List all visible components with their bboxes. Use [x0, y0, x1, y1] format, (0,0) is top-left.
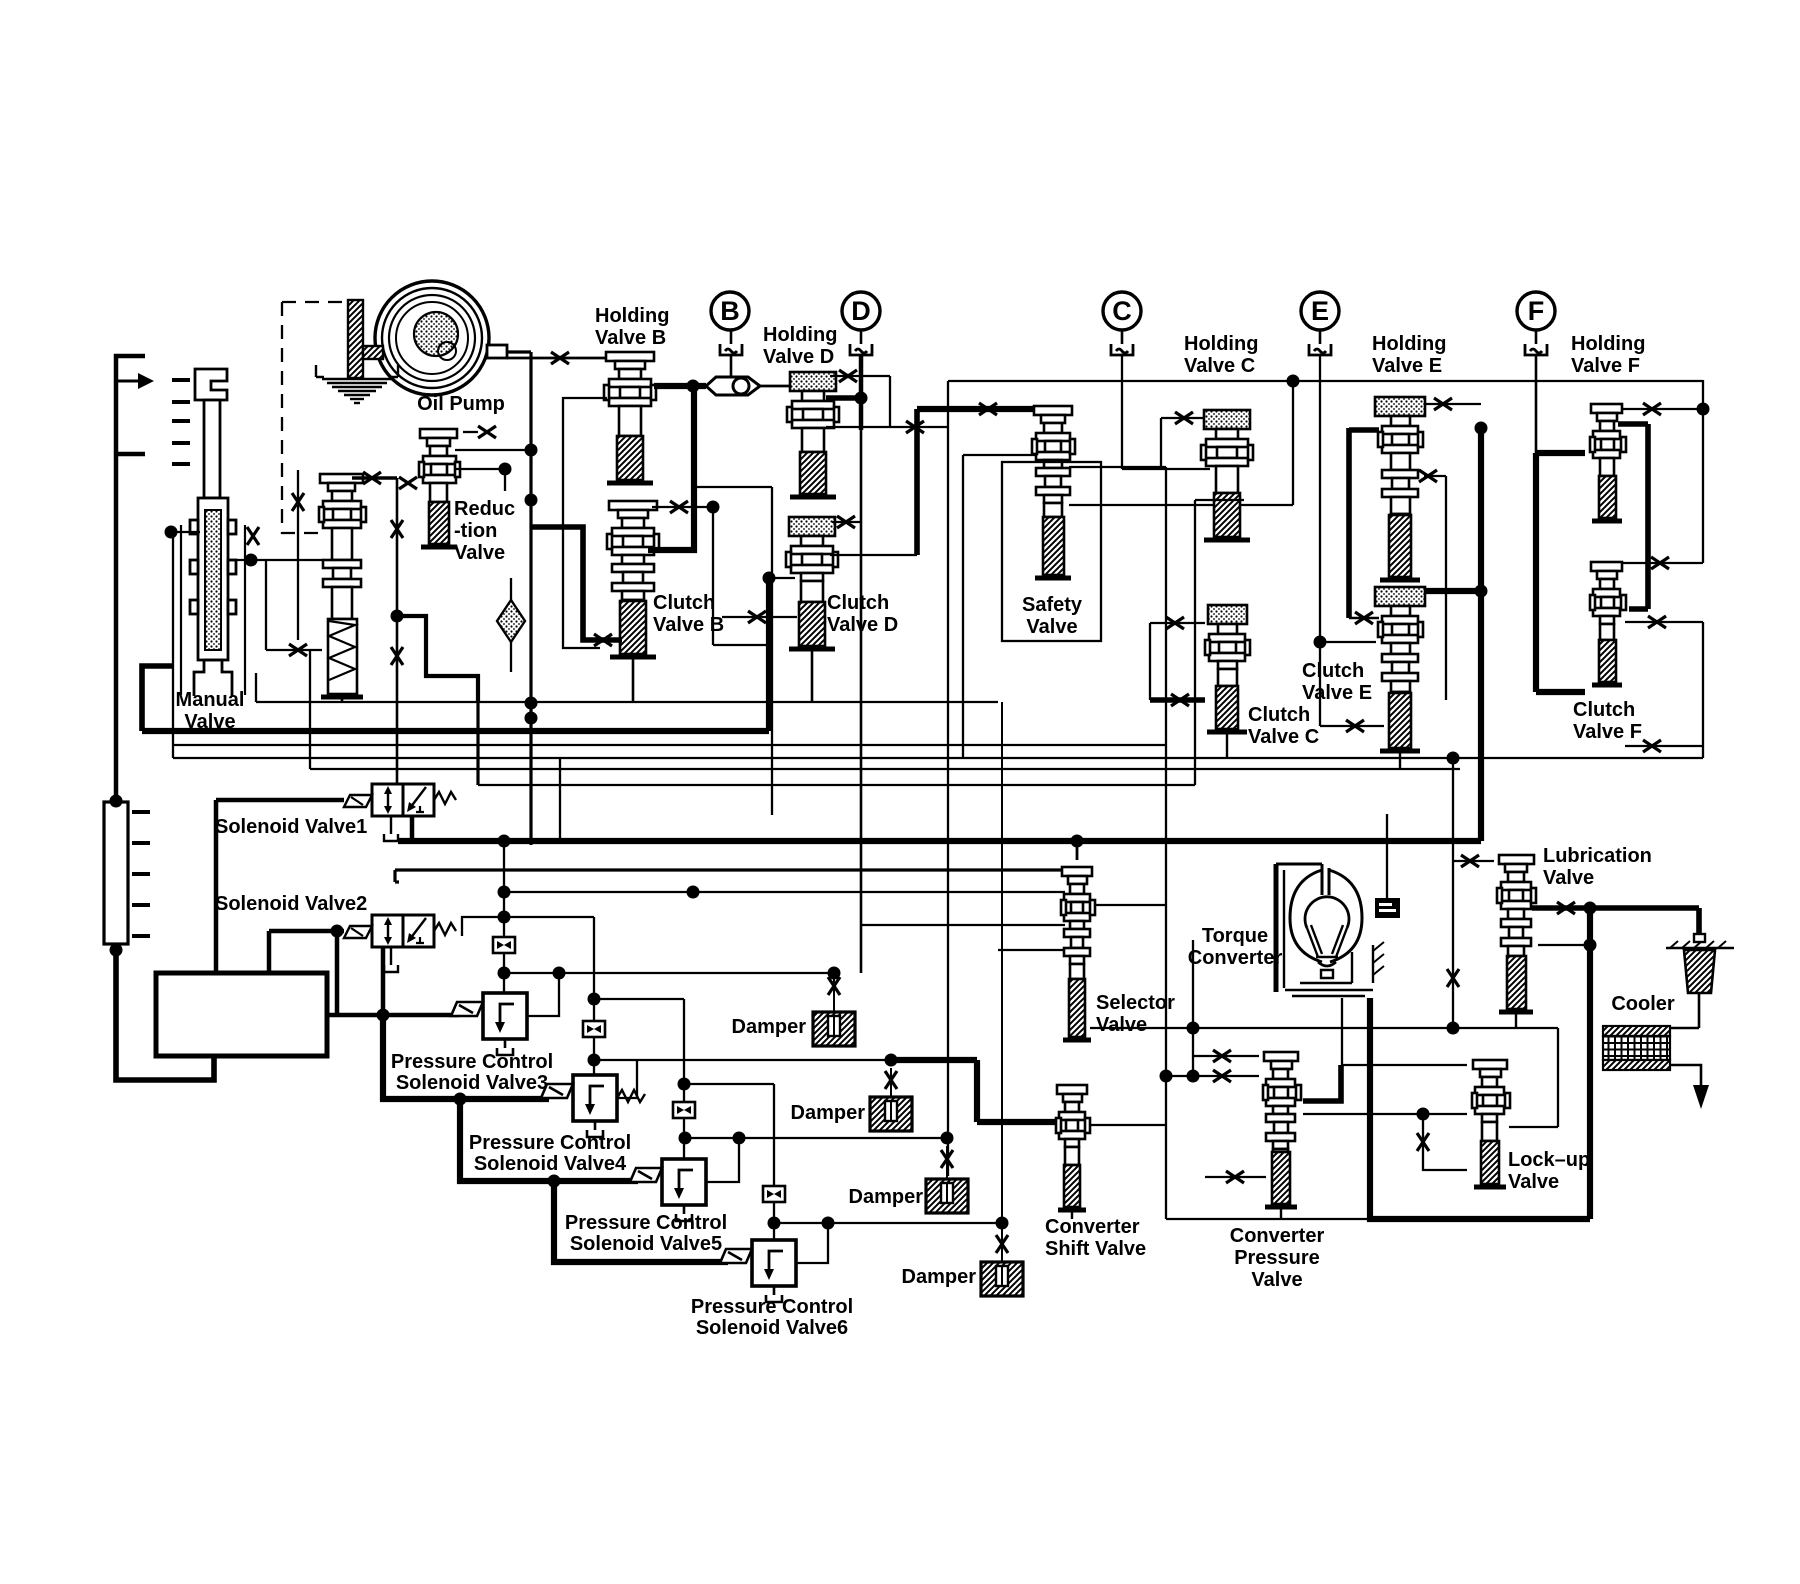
svg-text:Valve: Valve: [454, 542, 505, 564]
wire long riser right: [1165, 467, 1167, 1219]
svg-text:E: E: [1311, 296, 1329, 326]
accumulator ticks: [132, 812, 150, 936]
damper 3: [926, 1179, 968, 1213]
wire: [395, 880, 399, 883]
svg-text:D: D: [851, 296, 871, 326]
svg-text:-tion: -tion: [454, 520, 497, 542]
orifice: [1643, 740, 1661, 752]
wire: [1625, 745, 1703, 747]
wire: [1621, 562, 1703, 564]
svg-text:ClutchValve D: ClutchValve D: [827, 592, 898, 636]
wire safety right: [1069, 466, 1166, 468]
wire F to clutch F: [1536, 689, 1585, 695]
wire rail y745: [174, 744, 1166, 746]
svg-text:Oil Pump: Oil Pump: [417, 393, 505, 415]
wire cpv drain stub: [1280, 1209, 1282, 1219]
node D: [842, 292, 880, 330]
wire: [1193, 1055, 1259, 1057]
reduction valve: [419, 429, 460, 547]
connector converter: [1375, 898, 1400, 918]
wire E line: [1319, 356, 1321, 726]
wire: [393, 870, 396, 882]
wire: [832, 521, 861, 523]
wire thick down: [1587, 908, 1593, 1219]
box outline holding B: [563, 398, 607, 648]
orifice: [828, 977, 840, 995]
wire converter out: [1341, 998, 1343, 1065]
svg-text:ClutchValve F: ClutchValve F: [1573, 699, 1642, 743]
junction: [822, 1217, 835, 1230]
svg-text:ManualValve: ManualValve: [176, 689, 245, 733]
dashed pilot line: [282, 302, 359, 533]
junction: [678, 1078, 691, 1091]
junction: [498, 911, 511, 924]
wire to filter: [1696, 908, 1702, 934]
wire thick E left: [1346, 428, 1352, 618]
wire sv2 spring line: [462, 917, 504, 936]
wire long riser: [1001, 702, 1003, 1261]
junction: [1187, 1022, 1200, 1035]
wire: [476, 702, 479, 785]
wire to lockup right: [1509, 1126, 1558, 1128]
wire: [1121, 330, 1124, 344]
wire rail y758: [173, 757, 1703, 759]
wire regulator drain stub: [341, 697, 344, 702]
check valve: [706, 377, 760, 395]
junction: [588, 993, 601, 1006]
junction: [687, 886, 700, 899]
wire thick: [891, 1057, 977, 1063]
junction: [525, 494, 538, 507]
orifice: [1166, 617, 1184, 629]
solenoid valve 2: [344, 915, 456, 972]
junction: [941, 1132, 954, 1145]
node C: [1103, 292, 1141, 330]
clutch valve E: [1375, 587, 1425, 751]
svg-text:Damper: Damper: [791, 1102, 866, 1124]
junction: [687, 380, 700, 393]
junction: [1584, 939, 1597, 952]
wire: [684, 1083, 774, 1085]
wire: [1149, 623, 1151, 700]
lubrication valve: [1497, 855, 1536, 1012]
wire: [730, 330, 733, 344]
junction: [1447, 752, 1460, 765]
junction: [1071, 835, 1084, 848]
wire aux staircase: [397, 616, 478, 702]
wire: [1292, 381, 1294, 505]
damper 1: [813, 1012, 855, 1046]
wire: [504, 916, 594, 918]
safety valve: [1032, 406, 1075, 578]
wire: [214, 800, 219, 973]
orifice: [941, 1150, 953, 1168]
wire bottom rail: [1166, 1218, 1370, 1220]
junction: [110, 944, 123, 957]
wire: [1625, 621, 1703, 623]
wire aux top port: [352, 476, 397, 480]
orifice: [391, 520, 403, 538]
junction: [548, 1175, 561, 1188]
orifice: [1213, 1070, 1231, 1082]
reservoir box: [156, 973, 327, 1056]
wire rail y870: [395, 868, 1065, 871]
wire clutch E drain stub: [1399, 753, 1401, 769]
wire sv1 out: [410, 816, 415, 841]
pressure control solenoid valve 6: [720, 1240, 796, 1302]
svg-text:ClutchValve E: ClutchValve E: [1302, 660, 1372, 704]
wire staircase2: [460, 1099, 638, 1181]
wire cpv right: [1303, 1065, 1341, 1101]
wire: [1303, 1113, 1467, 1115]
wire long riser: [947, 381, 949, 1176]
wire manual valve port: [173, 532, 200, 758]
wire: [309, 650, 311, 769]
oil pan funnel: [316, 365, 398, 403]
wire thick E riser: [1478, 428, 1484, 841]
wire to safety: [917, 406, 1035, 412]
wire sv1 input: [216, 798, 344, 803]
node B: [711, 292, 749, 330]
wire clutch B top: [652, 506, 713, 508]
wire pcsv5 out: [706, 1138, 739, 1182]
wire pcsv4 pilot: [593, 917, 595, 1075]
wire: [1621, 408, 1703, 410]
wire damper3 rail: [684, 1137, 947, 1139]
orifice: [839, 370, 857, 382]
wire: [890, 1068, 892, 1097]
wire: [1349, 617, 1379, 620]
wire: [267, 931, 272, 973]
inline damper symbol: [673, 1102, 695, 1118]
wire pcsv4 out: [617, 1060, 637, 1098]
cooler: [1603, 1026, 1670, 1070]
wire cooler out: [1670, 1065, 1701, 1085]
junction: [525, 444, 538, 457]
wire check to holding D: [760, 385, 795, 388]
wire safety left: [963, 454, 1035, 456]
junction: [454, 1093, 467, 1106]
connector E: [1309, 344, 1331, 355]
wire: [974, 1060, 980, 1122]
wire reduc port: [455, 449, 531, 451]
selector valve: [1061, 867, 1095, 1040]
inline damper symbol: [763, 1186, 785, 1202]
wire: [1702, 622, 1704, 758]
wire thick riser: [766, 578, 772, 731]
wire return line: [116, 950, 214, 1080]
pressure control solenoid valve 4: [541, 1075, 645, 1137]
wire pcsv3 pilot: [503, 841, 505, 993]
junction: [1447, 1022, 1460, 1035]
node E: [1301, 292, 1339, 330]
junction: [110, 795, 123, 808]
orifice: [1226, 1171, 1244, 1183]
junction: [855, 392, 868, 405]
wire pump outlet: [507, 350, 531, 353]
wire: [1160, 418, 1162, 469]
orifice: [1461, 855, 1479, 867]
wire damper4 rail: [774, 1222, 1002, 1224]
wire: [1349, 427, 1379, 433]
orifice: [1648, 616, 1666, 628]
wire aux to solenoid1: [396, 478, 399, 785]
orifice: [670, 501, 688, 513]
svg-text:HoldingValve B: HoldingValve B: [595, 305, 669, 349]
wire rail y785: [478, 784, 1195, 786]
junction: [1584, 902, 1597, 915]
wire: [860, 330, 863, 344]
wire clutch D drain stub: [811, 651, 814, 702]
orifice: [979, 403, 997, 415]
wire: [826, 426, 948, 428]
orifice: [399, 477, 417, 489]
svg-text:HoldingValve F: HoldingValve F: [1571, 333, 1645, 377]
svg-text:Lubrication: Lubrication: [1543, 845, 1652, 867]
wire F to holding F: [1536, 450, 1585, 456]
wire: [255, 673, 257, 702]
wire C line: [1121, 356, 1123, 469]
wire: [1166, 1075, 1259, 1077]
orifice: [1557, 902, 1575, 914]
wire: [510, 578, 512, 600]
junction: [498, 967, 511, 980]
wire: [962, 455, 964, 758]
wire converter return: [1370, 998, 1590, 1219]
wire: [694, 486, 772, 488]
manual valve: [181, 369, 245, 696]
orifice: [391, 647, 403, 665]
junction: [331, 925, 344, 938]
wire pump pressure line: [529, 352, 532, 845]
wire staircase3: [554, 1181, 728, 1262]
wire rail y381: [948, 380, 1703, 382]
wire: [463, 431, 478, 433]
junction: [828, 967, 841, 980]
filter diamond: [497, 600, 525, 642]
connector C: [1111, 344, 1133, 355]
wire clutch C: [1150, 697, 1205, 703]
svg-text:Damper: Damper: [732, 1016, 807, 1038]
wire rail y1028: [1090, 1027, 1558, 1029]
wire: [1192, 940, 1194, 1076]
junction: [499, 463, 512, 476]
wire: [1195, 499, 1244, 501]
wire sv2 down: [381, 947, 386, 1015]
wire clutch C right: [1194, 500, 1196, 785]
wire: [297, 470, 299, 640]
oil pump: [375, 281, 507, 395]
wire: [712, 507, 714, 645]
connector F: [1525, 344, 1547, 355]
wire lube side port: [1538, 944, 1590, 946]
orifice: [292, 493, 304, 511]
arrow down: [1693, 1085, 1709, 1109]
wire: [1702, 380, 1704, 563]
wire csv right: [1089, 1124, 1166, 1126]
wire C to valve: [1122, 468, 1210, 470]
wire pcsv3 out: [526, 973, 559, 1016]
orifice: [1417, 1133, 1429, 1151]
wire safety right2: [1069, 504, 1293, 506]
node F: [1517, 292, 1555, 330]
scale ticks: [172, 380, 190, 464]
wire thick rail y841: [398, 838, 1481, 844]
svg-text:Solenoid Valve2: Solenoid Valve2: [215, 893, 367, 915]
junction: [885, 1054, 898, 1067]
pressure regulator valve: [319, 474, 366, 697]
orifice: [1651, 557, 1669, 569]
orifice: [748, 611, 766, 623]
wire: [833, 979, 835, 1011]
inline damper symbol: [583, 1021, 605, 1037]
wire csv drain stub: [1071, 1212, 1073, 1219]
wire: [1424, 588, 1481, 594]
wire pcsv6 pilot: [773, 1084, 775, 1240]
orifice: [1175, 412, 1193, 424]
svg-text:ConverterShift Valve: ConverterShift Valve: [1045, 1216, 1146, 1260]
svg-text:Solenoid Valve1: Solenoid Valve1: [215, 816, 367, 838]
svg-text:Valve: Valve: [1543, 867, 1594, 889]
junction: [525, 712, 538, 725]
wire: [1161, 417, 1205, 419]
wire: [1535, 330, 1538, 344]
junction: [733, 1132, 746, 1145]
holding valve C: [1201, 410, 1253, 540]
junction: [1417, 1108, 1430, 1121]
wire rail y925: [861, 924, 1065, 926]
damper 2: [870, 1097, 912, 1131]
wire: [946, 1146, 948, 1178]
orifice: [837, 516, 855, 528]
wire: [1424, 475, 1446, 477]
svg-text:Damper: Damper: [849, 1186, 924, 1208]
wire manual valve drain: [142, 666, 174, 731]
junction: [1475, 422, 1488, 435]
wire pcsv6 out: [796, 1223, 828, 1263]
connector D: [850, 344, 872, 355]
orifice: [906, 421, 924, 433]
wire clutch C drain stub: [1226, 734, 1228, 758]
wire stub: [504, 469, 506, 491]
wire: [1076, 841, 1079, 860]
wire holding D out: [826, 395, 861, 401]
orifice: [478, 426, 496, 438]
wire: [1453, 860, 1494, 862]
wire pcsv5 pilot: [683, 999, 685, 1159]
wire filter to cooler: [1698, 993, 1701, 1028]
wire F line: [1535, 356, 1538, 453]
orifice: [1355, 612, 1373, 624]
wire left supply line: [116, 356, 145, 801]
wire to pcsv3: [327, 1013, 459, 1018]
junction: [525, 697, 538, 710]
wire thick F loop: [1645, 424, 1651, 609]
wire rail y769: [310, 768, 1460, 770]
lock-up valve: [1472, 1060, 1510, 1187]
wire clutch D right: [830, 554, 917, 556]
svg-text:Damper: Damper: [902, 1266, 977, 1288]
orifice: [594, 634, 612, 646]
junction: [165, 526, 178, 539]
orifice: [363, 472, 381, 484]
wire: [335, 931, 340, 1015]
svg-text:F: F: [1528, 296, 1545, 326]
wire sv2 input: [269, 929, 344, 934]
svg-text:HoldingValve D: HoldingValve D: [763, 324, 837, 368]
wire: [1386, 814, 1388, 900]
junction: [1697, 403, 1710, 416]
junction: [498, 835, 511, 848]
wire: [559, 758, 561, 841]
wire thick rail y731: [142, 728, 769, 734]
accumulator body: [104, 802, 128, 944]
wire selector right: [1094, 904, 1166, 906]
converter shift valve: [1056, 1085, 1090, 1210]
wire: [914, 409, 920, 555]
wire reduc port2: [455, 468, 505, 470]
box outline safety: [1002, 462, 1101, 641]
svg-text:Pressure ControlSolenoid Valve: Pressure ControlSolenoid Valve5: [565, 1212, 727, 1255]
pump suction strainer: [348, 300, 383, 378]
wire: [889, 376, 891, 427]
svg-text:B: B: [720, 296, 740, 326]
wire: [830, 375, 890, 377]
solenoid valve 1: [344, 784, 456, 841]
svg-text:Pressure ControlSolenoid Valve: Pressure ControlSolenoid Valve3: [391, 1051, 553, 1094]
junction: [391, 610, 404, 623]
orifice: [1434, 398, 1452, 410]
wire: [1423, 1114, 1467, 1170]
wire D line thick: [859, 356, 864, 430]
wire to csv: [977, 1119, 1055, 1125]
wire: [1629, 606, 1648, 612]
wire clutch D left: [769, 577, 795, 579]
wire: [771, 487, 773, 815]
wire: [1205, 1176, 1266, 1178]
wire rail y950: [998, 949, 1065, 951]
clutch valve C: [1205, 605, 1250, 732]
wire: [713, 644, 772, 646]
wire manual-aux: [228, 559, 322, 561]
junction: [1287, 375, 1300, 388]
junction: [377, 1009, 390, 1022]
wire clutch B drain: [531, 527, 622, 640]
junction: [679, 1132, 692, 1145]
svg-text:HoldingValve C: HoldingValve C: [1184, 333, 1258, 377]
converter pressure valve: [1263, 1052, 1301, 1207]
wire: [1150, 622, 1205, 624]
orifice: [1419, 470, 1437, 482]
connector B: [720, 344, 742, 355]
damper 4: [981, 1262, 1023, 1296]
orifice: [1447, 969, 1459, 987]
junction: [553, 967, 566, 980]
wire: [1424, 403, 1481, 405]
pressure control solenoid valve 5: [630, 1159, 706, 1221]
clutch valve F: [1590, 562, 1626, 685]
junction: [1314, 636, 1327, 649]
orifice: [1171, 694, 1189, 706]
wire F line thick: [1533, 453, 1539, 692]
junction: [588, 1054, 601, 1067]
svg-text:C: C: [1112, 296, 1132, 326]
orifice: [247, 527, 259, 545]
wire: [594, 998, 684, 1000]
orifice: [1346, 720, 1364, 732]
svg-text:Cooler: Cooler: [1611, 993, 1675, 1015]
svg-text:HoldingValve E: HoldingValve E: [1372, 333, 1446, 377]
